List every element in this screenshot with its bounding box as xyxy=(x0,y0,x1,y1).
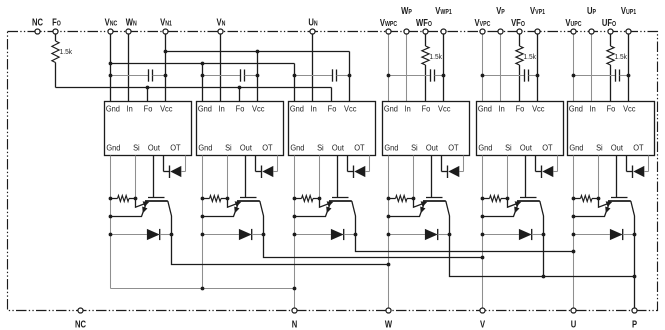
svg-text:N: N xyxy=(292,318,298,329)
junction V phase at rail xyxy=(481,256,485,260)
junction R8-Si xyxy=(412,197,416,201)
junction rail-R10 xyxy=(572,197,576,201)
terminal VVP1 xyxy=(535,29,540,34)
wire Si stub cell 6 xyxy=(598,156,600,199)
wire Gnd/emitter rail cell 1 xyxy=(110,156,112,289)
op-amp U3 gate driver block xyxy=(289,102,376,156)
wire VVP1 to U5 Vcc xyxy=(537,34,539,102)
pin labels U2 top Gnd In Fo Vcc xyxy=(198,104,265,114)
pin labels U2 bottom Gnd Si Out OT xyxy=(198,143,272,153)
transistor Q4 IGBT xyxy=(431,156,433,198)
op-amp U6 gate driver block xyxy=(568,102,655,156)
terminal UN xyxy=(310,29,315,34)
wire Vcc stub U3 xyxy=(349,52,351,102)
junction rail-R5 xyxy=(109,197,113,201)
wire VUP1 to U6 Vcc xyxy=(628,34,630,102)
junction cathode-collector cell 1 xyxy=(170,233,174,237)
junction Vcc U2 xyxy=(256,50,260,54)
terminal U bottom xyxy=(571,308,576,313)
op-amp U2 gate driver block xyxy=(197,102,284,156)
pin labels U1 top Gnd In Fo Vcc xyxy=(106,104,173,114)
pin labels U6 bottom Gnd Si Out OT xyxy=(569,143,643,153)
pin labels U5 top Gnd In Fo Vcc xyxy=(478,104,545,114)
op-amp U1 gate driver block xyxy=(105,102,192,156)
junction rail-R6 xyxy=(201,197,205,201)
terminal VVPC xyxy=(480,29,485,34)
junction emitter-rail cell 2 xyxy=(201,215,205,219)
junction R10-Si xyxy=(597,197,601,201)
diode D2 OT clamp xyxy=(255,156,257,172)
op-amp U4 gate driver block xyxy=(383,102,470,156)
terminal UFO xyxy=(608,29,613,34)
junction R9-Si xyxy=(506,197,510,201)
junction cathode-collector cell 6 xyxy=(633,233,637,237)
junction cathode-collector cell 2 xyxy=(262,233,266,237)
wire VWPC to U4 Gnd xyxy=(388,34,390,102)
junction C5 right xyxy=(536,74,540,78)
transistor Q6 IGBT xyxy=(616,156,618,198)
wire W phase from Q1 collector xyxy=(172,235,389,265)
pin labels U5 bottom Gnd Si Out OT xyxy=(478,143,552,153)
junction VNC bus xyxy=(109,62,113,66)
junction emitter-rail cell 5 xyxy=(481,215,485,219)
resistor R4 1.5k on UF0 line xyxy=(610,34,612,46)
pin labels U1 bottom Gnd Si Out OT xyxy=(106,143,180,153)
junction emitter-rail cell 6 xyxy=(572,215,576,219)
terminal WP xyxy=(404,29,409,34)
wire V phase from Q2 collector xyxy=(264,235,483,258)
capacitor C2 xyxy=(203,75,241,77)
wire Gnd/emitter rail cell 4 xyxy=(388,156,390,309)
junction emitter-rail cell 1 xyxy=(109,215,113,219)
wire Gnd/emitter rail cell 3 xyxy=(294,156,296,309)
junction anode-rail cell 4 xyxy=(387,233,391,237)
wire VN1 to U1 Vcc xyxy=(165,34,167,102)
junction C6 right xyxy=(627,74,631,78)
svg-text:NC: NC xyxy=(32,16,43,27)
pin labels U4 bottom Gnd Si Out OT xyxy=(384,143,458,153)
terminal VNC xyxy=(108,29,113,34)
wire Si stub cell 1 xyxy=(135,156,137,199)
junction anode-rail cell 3 xyxy=(293,233,297,237)
junction rail-R7 xyxy=(293,197,297,201)
transistor Q5 IGBT xyxy=(525,156,527,198)
wire VN to U2 In xyxy=(220,34,222,102)
junction rail-R9 xyxy=(481,197,485,201)
wire F0 fault bus xyxy=(56,87,332,89)
diode D9 freewheel xyxy=(295,234,331,236)
wire Gnd stub U3 xyxy=(294,64,296,102)
wire Si stub cell 5 xyxy=(507,156,509,199)
diode D7 freewheel xyxy=(111,234,147,236)
wire U phase from Q3 collector xyxy=(356,235,574,252)
terminal VUP1 xyxy=(626,29,631,34)
junction R7-Si xyxy=(318,197,322,201)
junction C4 right xyxy=(442,74,446,78)
resistor R3 1.5k on VF0 line xyxy=(519,34,521,46)
wire WP to U4 In xyxy=(406,34,408,102)
svg-text:NC: NC xyxy=(75,318,86,329)
wire Gnd/emitter rail cell 6 xyxy=(573,156,575,309)
terminal VWPC xyxy=(386,29,391,34)
capacitor C1 xyxy=(111,75,149,77)
svg-text:W: W xyxy=(385,318,393,329)
svg-text:1.5k: 1.5k xyxy=(615,53,628,60)
diode D12 freewheel xyxy=(574,234,610,236)
capacitor C5 xyxy=(483,75,525,77)
pin labels U4 top Gnd In Fo Vcc xyxy=(384,104,451,114)
junction R5-Si xyxy=(134,197,138,201)
junction P bus Q6 xyxy=(633,275,637,279)
svg-text:U: U xyxy=(571,318,577,329)
terminal UP xyxy=(589,29,594,34)
resistor R7 sense xyxy=(295,198,302,200)
wire Gnd stub U2 xyxy=(202,64,204,102)
capacitor C6 xyxy=(574,75,616,77)
terminal N bottom xyxy=(292,308,297,313)
wire VUPC to U6 Gnd xyxy=(573,34,575,102)
diode D4 OT clamp xyxy=(441,156,443,172)
pin labels U6 top Gnd In Fo Vcc xyxy=(569,104,636,114)
junction cathode-collector cell 5 xyxy=(542,233,546,237)
terminal VWP1 xyxy=(441,29,446,34)
junction N bus cell3 xyxy=(293,287,297,291)
wire VN1 supply bus xyxy=(166,51,350,53)
junction anode-rail cell 1 xyxy=(109,233,113,237)
svg-text:V: V xyxy=(480,318,485,329)
svg-text:P: P xyxy=(632,318,637,329)
resistor R10 sense xyxy=(574,198,581,200)
wire Q6 collector to P terminal xyxy=(634,235,636,309)
terminal FO xyxy=(53,29,58,34)
svg-text:1.5k: 1.5k xyxy=(524,53,537,60)
svg-text:1.5k: 1.5k xyxy=(430,53,443,60)
junction emitter-rail cell 3 xyxy=(293,215,297,219)
junction N bus cell2 xyxy=(201,287,205,291)
junction W phase at rail xyxy=(387,263,391,267)
terminal WFO xyxy=(423,29,428,34)
wire Gnd/emitter rail cell 2 xyxy=(202,156,204,289)
junction U phase at rail xyxy=(572,250,576,254)
junction C6 left xyxy=(572,74,576,78)
wire Vcc stub U2 xyxy=(257,52,259,102)
wire VP to U5 In xyxy=(500,34,502,102)
junction R6-Si xyxy=(226,197,230,201)
wire Fo stub driver U3 xyxy=(331,88,333,102)
junction VN1 bus xyxy=(164,50,168,54)
wire VWP1 to U4 Vcc xyxy=(443,34,445,102)
resistor R2 1.5k on WF0 line xyxy=(425,34,427,46)
terminal P bottom xyxy=(632,308,637,313)
terminal VN1 xyxy=(163,29,168,34)
wire UP to U6 In xyxy=(591,34,593,102)
svg-text:1.5k: 1.5k xyxy=(60,49,73,56)
junction C5 left xyxy=(481,74,485,78)
junction cathode-collector cell 4 xyxy=(448,233,452,237)
junction C1 right xyxy=(164,74,168,78)
resistor R1 1.5k on F0 line xyxy=(55,34,57,41)
transistor Q1 IGBT xyxy=(153,156,155,198)
junction C3 right xyxy=(348,74,352,78)
op-amp U5 gate driver block xyxy=(477,102,564,156)
terminal V bottom xyxy=(480,308,485,313)
junction cathode-collector cell 3 xyxy=(354,233,358,237)
junction P bus Q5 xyxy=(542,275,546,279)
junction emitter-rail cell 4 xyxy=(387,215,391,219)
terminal VFO xyxy=(517,29,522,34)
wire Si stub cell 4 xyxy=(413,156,415,199)
wire Fo stub driver U2 xyxy=(239,88,241,102)
wire VVPC to U5 Gnd xyxy=(482,34,484,102)
junction Fo U1 xyxy=(146,86,150,90)
wire Si stub cell 2 xyxy=(227,156,229,199)
wire N bus xyxy=(111,288,295,290)
diode D5 OT clamp xyxy=(535,156,537,172)
resistor R8 sense xyxy=(389,198,396,200)
capacitor C3 xyxy=(295,75,333,77)
terminal W bottom xyxy=(386,308,391,313)
junction anode-rail cell 6 xyxy=(572,233,576,237)
junction anode-rail cell 5 xyxy=(481,233,485,237)
pin labels U3 bottom Gnd Si Out OT xyxy=(290,143,364,153)
wire UN to U3 In xyxy=(312,34,314,102)
terminal WN xyxy=(126,29,131,34)
wire WN to U1 In xyxy=(128,34,130,102)
terminal VP xyxy=(498,29,503,34)
wire VNC ground bus xyxy=(111,63,295,65)
terminal NC bottom xyxy=(78,308,83,313)
junction C3 left xyxy=(293,74,297,78)
junction C2 right xyxy=(256,74,260,78)
diode D6 OT clamp xyxy=(626,156,628,172)
terminal VN xyxy=(218,29,223,34)
junction C1 left xyxy=(109,74,113,78)
terminal VUPC xyxy=(571,29,576,34)
capacitor C4 xyxy=(389,75,431,77)
junction C4 left xyxy=(387,74,391,78)
diode D11 freewheel xyxy=(483,234,519,236)
transistor Q3 IGBT xyxy=(337,156,339,198)
resistor R5 sense xyxy=(111,198,118,200)
wire Gnd/emitter rail cell 5 xyxy=(482,156,484,309)
resistor R6 sense xyxy=(203,198,210,200)
resistor R9 sense xyxy=(483,198,490,200)
wire Fo stub driver U1 xyxy=(147,88,149,102)
diode D3 OT clamp xyxy=(347,156,349,172)
transistor Q2 IGBT xyxy=(245,156,247,198)
wire VNC to U1 Gnd xyxy=(110,34,112,102)
pin labels U3 top Gnd In Fo Vcc xyxy=(290,104,357,114)
wire Q5 collector to P bus xyxy=(543,235,545,277)
junction Gnd U2 xyxy=(201,62,205,66)
junction Fo U2 xyxy=(238,86,242,90)
wire Si stub cell 3 xyxy=(319,156,321,199)
diode D10 freewheel xyxy=(389,234,425,236)
wire P bus from Q4 collector xyxy=(450,235,635,277)
junction C2 left xyxy=(201,74,205,78)
junction rail-R8 xyxy=(387,197,391,201)
diode D1 OT clamp xyxy=(163,156,165,172)
diode D8 freewheel xyxy=(203,234,239,236)
junction anode-rail cell 2 xyxy=(201,233,205,237)
terminal NC xyxy=(35,29,40,34)
